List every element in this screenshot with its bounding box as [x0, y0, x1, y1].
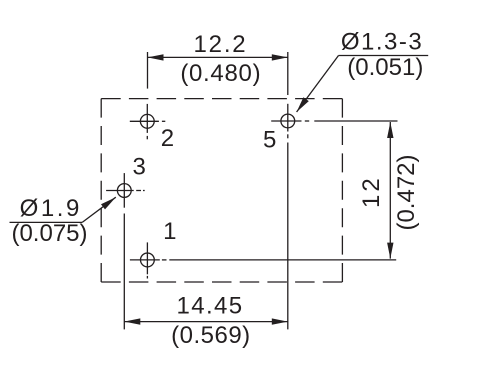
svg-text:Ø1.9: Ø1.9 — [20, 195, 82, 222]
svg-text:3: 3 — [133, 154, 146, 181]
svg-text:1: 1 — [163, 218, 176, 245]
svg-text:5: 5 — [263, 127, 276, 154]
svg-text:(0.051): (0.051) — [347, 54, 423, 81]
svg-text:14.45: 14.45 — [176, 293, 243, 320]
svg-text:Ø1.3-3: Ø1.3-3 — [341, 28, 423, 55]
svg-text:12.2: 12.2 — [194, 31, 248, 58]
svg-text:(0.472): (0.472) — [393, 154, 420, 230]
svg-text:(0.480): (0.480) — [180, 60, 261, 87]
svg-text:2: 2 — [161, 125, 174, 152]
svg-text:(0.075): (0.075) — [11, 220, 87, 247]
svg-text:12: 12 — [358, 175, 385, 208]
svg-text:(0.569): (0.569) — [171, 322, 251, 349]
